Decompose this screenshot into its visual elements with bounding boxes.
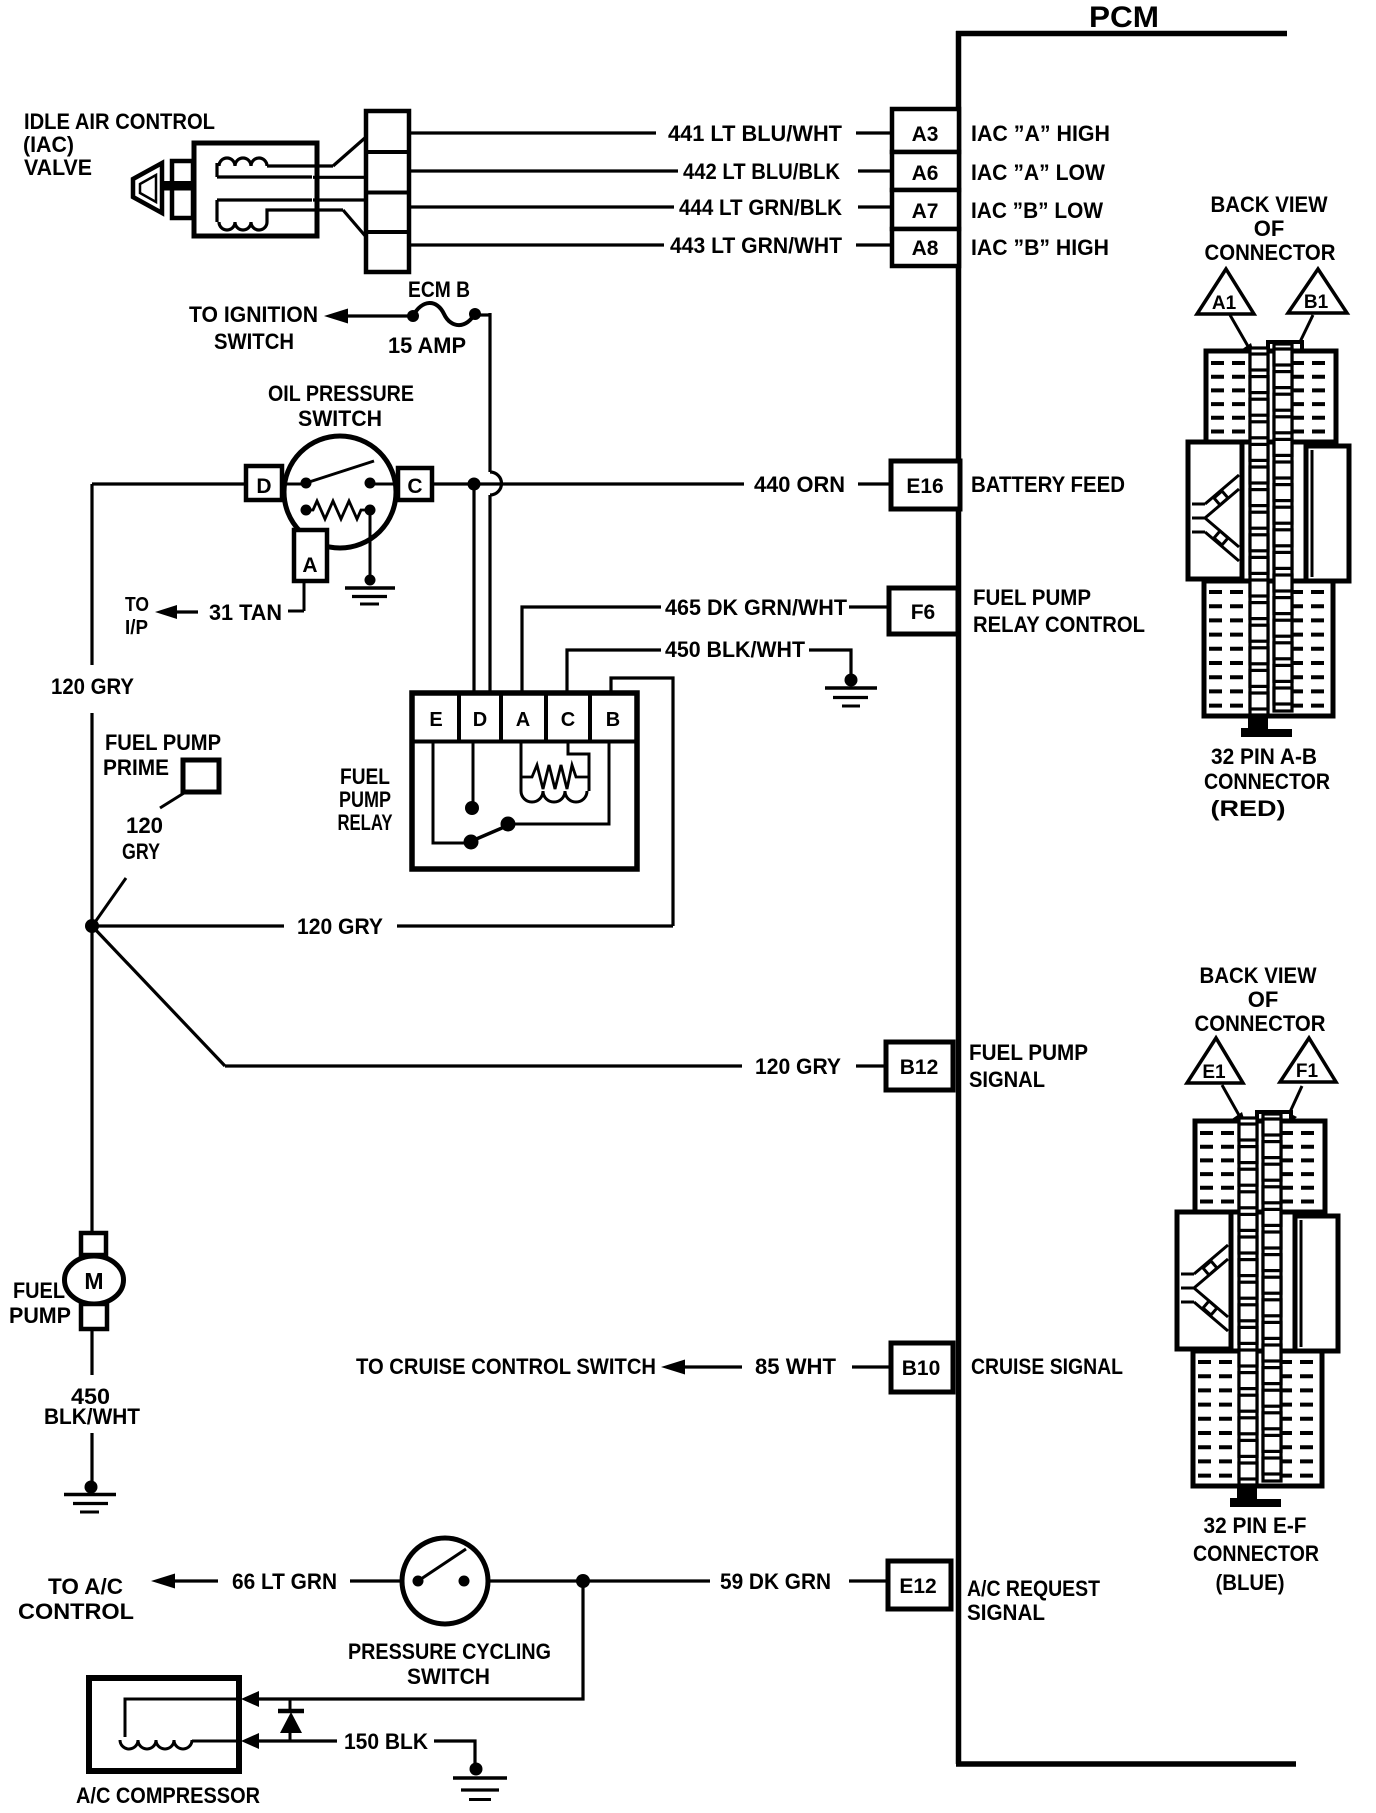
- oil pressure switch blade: [306, 461, 374, 483]
- svg-text:IAC ”B” LOW: IAC ”B” LOW: [971, 198, 1103, 223]
- oil pressure switch terminal C: [398, 468, 432, 500]
- wire D to contact: [282, 483, 306, 486]
- wire 120 GRY vertical upper: [90, 484, 93, 665]
- wire relay B to 120 GRY: [611, 678, 673, 926]
- relay movable contact: [467, 825, 509, 843]
- connector E-F top shell: [1195, 1121, 1325, 1212]
- junction dot battery feed: [468, 478, 481, 491]
- svg-text:E1: E1: [1202, 1062, 1226, 1083]
- svg-text:SIGNAL: SIGNAL: [969, 1067, 1045, 1092]
- svg-text:E: E: [429, 709, 442, 731]
- oil pressure switch terminal A: [294, 530, 327, 581]
- svg-text:F6: F6: [911, 601, 936, 624]
- connector E-F bottom tab: [1230, 1486, 1281, 1507]
- pin box E16: [891, 461, 960, 509]
- wire 444: [409, 205, 674, 208]
- arrow to ignition switch: [324, 309, 348, 324]
- connector E-F pin column 1: [1239, 1118, 1257, 1485]
- PCM top boundary line: [956, 31, 1287, 37]
- svg-text:TO CRUISE CONTROL SWITCH: TO CRUISE CONTROL SWITCH: [356, 1354, 656, 1379]
- svg-text:E16: E16: [906, 475, 943, 498]
- fuel pump motor: [81, 1233, 106, 1255]
- oil pressure switch ground: [365, 575, 376, 586]
- relay internal D to pivot: [472, 742, 475, 805]
- connector A-B wire bundle: [1192, 475, 1239, 561]
- wire 120 GRY vertical lower: [90, 713, 93, 926]
- svg-text:CONTROL: CONTROL: [18, 1599, 134, 1624]
- svg-text:B12: B12: [900, 1056, 939, 1079]
- svg-text:A: A: [516, 709, 530, 731]
- svg-text:59 DK GRN: 59 DK GRN: [720, 1569, 831, 1594]
- svg-text:440 ORN: 440 ORN: [754, 472, 845, 497]
- wire 450 BLK WHT fuel pump: [90, 1329, 93, 1375]
- svg-text:B: B: [606, 709, 620, 731]
- svg-text:GRY: GRY: [122, 839, 160, 864]
- svg-text:A3: A3: [912, 123, 939, 146]
- wire junction to compressor: [245, 1581, 583, 1699]
- pin box A3: [892, 109, 959, 152]
- svg-text:PRIME: PRIME: [103, 755, 169, 780]
- svg-text:444 LT GRN/BLK: 444 LT GRN/BLK: [679, 195, 842, 220]
- svg-text:C: C: [561, 709, 575, 731]
- connector E-F pin column 2: [1263, 1114, 1281, 1481]
- svg-text:E12: E12: [899, 1575, 936, 1598]
- connector A-B bottom shell hatching: [1209, 592, 1329, 706]
- svg-text:SWITCH: SWITCH: [298, 406, 382, 431]
- svg-text:PUMP: PUMP: [9, 1303, 71, 1328]
- callout triangle A1: [1197, 269, 1254, 314]
- svg-text:OF: OF: [1254, 216, 1285, 241]
- svg-text:443 LT GRN/WHT: 443 LT GRN/WHT: [670, 233, 843, 258]
- wire 150 BLK to ground: [434, 1741, 475, 1764]
- svg-text:120 GRY: 120 GRY: [51, 674, 134, 699]
- wire 150 BLK: [259, 1739, 337, 1742]
- connector E-F bottom shell hatching: [1198, 1362, 1318, 1476]
- junction dot A/C: [576, 1574, 590, 1588]
- clutch diode: [289, 1699, 292, 1712]
- svg-text:A7: A7: [912, 200, 939, 223]
- svg-text:SIGNAL: SIGNAL: [967, 1600, 1045, 1625]
- compressor clutch coil: [125, 1699, 241, 1737]
- wire junction to relay D: [472, 484, 475, 741]
- pin box E12: [888, 1561, 951, 1609]
- IAC valve coil B winding: [217, 198, 312, 201]
- svg-text:FUEL PUMP: FUEL PUMP: [973, 585, 1091, 610]
- connector A-B top tab: [1268, 342, 1302, 353]
- connector E-F left latch block: [1177, 1212, 1231, 1349]
- callout triangle F1: [1280, 1038, 1336, 1082]
- svg-text:IAC ”B” HIGH: IAC ”B” HIGH: [971, 235, 1109, 260]
- svg-text:A/C REQUEST: A/C REQUEST: [967, 1576, 1100, 1601]
- IAC 4-pin connector: [366, 111, 409, 272]
- svg-text:32 PIN A-B: 32 PIN A-B: [1211, 744, 1317, 769]
- svg-text:FUEL PUMP: FUEL PUMP: [105, 730, 221, 755]
- svg-text:RELAY CONTROL: RELAY CONTROL: [973, 612, 1145, 637]
- svg-text:PCM: PCM: [1089, 1, 1159, 34]
- pin box B10: [891, 1343, 953, 1392]
- svg-text:442 LT BLU/BLK: 442 LT BLU/BLK: [683, 159, 840, 184]
- wire 120 GRY to fuel pump: [90, 926, 93, 1233]
- relay terminal row: [412, 740, 637, 744]
- relay internal E to contact: [433, 742, 464, 843]
- compressor clutch arrow lower: [241, 1733, 259, 1749]
- svg-text:TO: TO: [125, 594, 149, 616]
- PCM bottom boundary line: [956, 1761, 1296, 1767]
- svg-text:31 TAN: 31 TAN: [209, 600, 282, 625]
- svg-text:A/C COMPRESSOR: A/C COMPRESSOR: [76, 1783, 260, 1808]
- svg-text:VALVE: VALVE: [24, 155, 92, 180]
- fuel pump prime connector: [183, 760, 219, 792]
- connector A-B top shell hatching: [1211, 363, 1332, 432]
- pressure cycling switch blade: [418, 1549, 466, 1581]
- wire 450 BLK WHT: [567, 650, 661, 693]
- svg-text:441 LT BLU/WHT: 441 LT BLU/WHT: [668, 121, 843, 146]
- svg-text:SWITCH: SWITCH: [407, 1664, 490, 1689]
- pin box A8: [892, 229, 959, 266]
- connector E-F right latch block: [1295, 1216, 1338, 1351]
- oil pressure switch body: [284, 436, 396, 548]
- fuel pump ground: [85, 1481, 98, 1494]
- arrow E1 to pin: [1222, 1085, 1240, 1117]
- wire A terminal to 31 TAN: [303, 581, 306, 611]
- svg-text:RELAY: RELAY: [338, 810, 393, 835]
- svg-text:(RED): (RED): [1211, 796, 1286, 821]
- svg-text:IAC ”A” LOW: IAC ”A” LOW: [971, 160, 1105, 185]
- svg-text:ECM B: ECM B: [408, 277, 470, 302]
- junction dot 120 GRY: [85, 919, 99, 933]
- ground 150 BLK: [470, 1763, 483, 1776]
- svg-text:FUEL: FUEL: [340, 764, 390, 789]
- IAC valve armature bar: [163, 181, 313, 191]
- svg-text:A8: A8: [912, 237, 939, 260]
- svg-text:PUMP: PUMP: [339, 787, 391, 812]
- arrow F1 to pin: [1290, 1086, 1302, 1112]
- IAC valve neck lines: [313, 176, 366, 179]
- relay coil: [520, 742, 523, 791]
- compressor clutch arrow upper: [241, 1691, 259, 1707]
- wire coil B to connector: [343, 210, 367, 238]
- IAC valve pintle cone: [133, 163, 162, 213]
- svg-text:CONNECTOR: CONNECTOR: [1193, 1541, 1319, 1566]
- arrow to I/P: [155, 605, 177, 619]
- callout triangle E1: [1187, 1038, 1243, 1083]
- svg-text:32 PIN E-F: 32 PIN E-F: [1204, 1513, 1307, 1538]
- svg-text:120 GRY: 120 GRY: [297, 914, 383, 939]
- arrow cruise: [661, 1360, 685, 1375]
- connector A-B pin column 2: [1274, 344, 1292, 711]
- svg-text:CONNECTOR: CONNECTOR: [1195, 1011, 1326, 1036]
- svg-text:OIL PRESSURE: OIL PRESSURE: [268, 381, 414, 406]
- wire 442: [409, 169, 678, 172]
- svg-text:BACK VIEW: BACK VIEW: [1211, 192, 1328, 217]
- relay internal contact to B: [514, 742, 609, 824]
- wire 450 to ground: [809, 650, 851, 675]
- pressure cycling switch contacts: [413, 1576, 424, 1587]
- svg-text:15 AMP: 15 AMP: [388, 333, 466, 358]
- arrow B1 to pin: [1298, 315, 1313, 346]
- svg-text:150 BLK: 150 BLK: [344, 1729, 428, 1754]
- svg-text:CONNECTOR: CONNECTOR: [1205, 240, 1336, 265]
- wire fuse to relay: [474, 313, 490, 316]
- svg-text:465 DK GRN/WHT: 465 DK GRN/WHT: [665, 595, 848, 620]
- svg-text:450 BLK/WHT: 450 BLK/WHT: [665, 637, 806, 662]
- svg-text:A: A: [302, 554, 317, 577]
- wire 441: [409, 131, 656, 134]
- svg-text:BLK/WHT: BLK/WHT: [44, 1404, 141, 1429]
- wire 443: [409, 243, 664, 246]
- IAC valve body box: [194, 143, 317, 236]
- wire C to E16 battery feed: [432, 482, 744, 485]
- wire to fuel pump ground: [90, 1433, 93, 1483]
- connector A-B right latch block: [1306, 446, 1349, 581]
- svg-text:120 GRY: 120 GRY: [755, 1054, 841, 1079]
- svg-text:CONNECTOR: CONNECTOR: [1204, 769, 1330, 794]
- svg-text:A6: A6: [912, 162, 939, 185]
- svg-text:TO IGNITION: TO IGNITION: [189, 302, 318, 327]
- pin box A7: [892, 190, 959, 229]
- oil pressure switch contacts: [301, 478, 312, 489]
- svg-text:(IAC): (IAC): [23, 132, 74, 157]
- pressure cycling switch body: [402, 1538, 488, 1624]
- wire 120 GRY from D: [92, 482, 246, 485]
- connector E-F top shell hatching: [1200, 1133, 1321, 1202]
- svg-text:(BLUE): (BLUE): [1216, 1570, 1285, 1595]
- svg-text:85 WHT: 85 WHT: [755, 1354, 837, 1379]
- pin box B12: [886, 1042, 953, 1090]
- wire 66 LT GRN: [350, 1579, 402, 1582]
- prime connector pointer: [160, 793, 184, 808]
- oil pressure switch resistor: [306, 501, 370, 519]
- callout triangle B1: [1288, 269, 1347, 313]
- fuel pump relay box: [412, 693, 637, 869]
- svg-text:D: D: [473, 709, 487, 731]
- svg-text:BACK VIEW: BACK VIEW: [1200, 963, 1317, 988]
- svg-text:C: C: [407, 475, 422, 498]
- IAC valve coil A winding: [217, 158, 312, 177]
- wire 120 GRY horizontal: [92, 924, 284, 927]
- svg-text:M: M: [84, 1268, 103, 1294]
- svg-text:66 LT GRN: 66 LT GRN: [232, 1569, 337, 1594]
- svg-text:FUEL PUMP: FUEL PUMP: [969, 1040, 1088, 1065]
- svg-text:CRUISE SIGNAL: CRUISE SIGNAL: [971, 1354, 1123, 1379]
- wire switch to E12: [488, 1579, 710, 1582]
- A/C compressor box: [89, 1678, 239, 1771]
- arrow to A/C control: [151, 1574, 175, 1589]
- svg-text:D: D: [256, 475, 271, 498]
- ground 450 BLK WHT: [845, 674, 858, 687]
- svg-text:IAC ”A” HIGH: IAC ”A” HIGH: [971, 121, 1110, 146]
- svg-text:120: 120: [126, 813, 163, 838]
- wire contact to C: [370, 483, 398, 486]
- connector E-F wire bundle: [1181, 1245, 1228, 1331]
- svg-text:B10: B10: [902, 1357, 941, 1380]
- svg-text:FUEL: FUEL: [13, 1278, 65, 1303]
- arrow A1 to pin: [1230, 315, 1249, 348]
- svg-text:I/P: I/P: [125, 617, 148, 639]
- svg-text:OF: OF: [1248, 987, 1279, 1012]
- connector A-B bottom tab: [1241, 716, 1292, 737]
- wire switch to ground: [369, 510, 372, 577]
- svg-text:IDLE AIR CONTROL: IDLE AIR CONTROL: [24, 109, 215, 134]
- wire 465 DK GRN WHT: [522, 607, 661, 693]
- oil pressure switch terminal D: [246, 466, 282, 500]
- connector E-F top tab: [1257, 1112, 1291, 1123]
- svg-text:B1: B1: [1304, 292, 1329, 313]
- IAC valve collar: [172, 161, 193, 218]
- PCM left boundary line: [956, 31, 962, 1764]
- pin box F6: [889, 588, 958, 634]
- svg-text:A1: A1: [1212, 293, 1237, 314]
- wire coil A to connector: [312, 164, 333, 167]
- wire 85 WHT: [852, 1365, 891, 1368]
- svg-text:TO A/C: TO A/C: [48, 1574, 123, 1599]
- connector A-B pin column 1: [1250, 348, 1268, 715]
- svg-text:PRESSURE CYCLING: PRESSURE CYCLING: [348, 1639, 551, 1664]
- wire diagonal to B12: [92, 926, 225, 1066]
- svg-text:SWITCH: SWITCH: [214, 329, 294, 354]
- connector A-B top shell: [1206, 351, 1336, 442]
- connector E-F bottom shell: [1193, 1351, 1322, 1486]
- svg-text:BATTERY FEED: BATTERY FEED: [971, 472, 1125, 497]
- pin box A6: [892, 152, 959, 190]
- svg-text:F1: F1: [1296, 1061, 1319, 1082]
- connector A-B left latch block: [1188, 442, 1242, 579]
- connector A-B bottom shell: [1204, 581, 1333, 716]
- wire hop over battery feed: [490, 472, 502, 495]
